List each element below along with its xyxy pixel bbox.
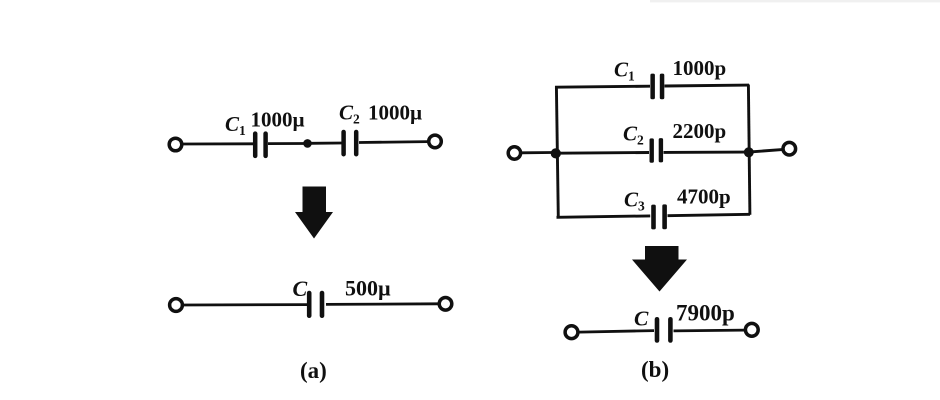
capacitor C2 (b) [650,138,664,163]
capacitor C [309,293,322,316]
junction node right [744,147,754,157]
wire [579,331,654,333]
svg-text:2200p: 2200p [673,119,727,143]
wire middle branch [558,151,649,155]
terminal right (a) bottom [439,298,452,311]
capacitor C1 [255,134,265,156]
wire [359,140,428,144]
capacitor C3 (b) [651,204,667,229]
svg-text:1000µ: 1000µ [368,101,422,125]
wire [326,302,438,305]
wire left rail [556,86,558,217]
terminal right (b) bottom [745,323,758,336]
terminal right (a) top [429,135,442,148]
wire [674,329,745,333]
arrow (a) [295,187,333,239]
wire [268,142,304,145]
wire right rail [748,85,750,215]
terminal left (b) bottom [565,326,578,339]
arrow (b) [632,246,687,292]
svg-text:4700p: 4700p [677,185,731,209]
svg-text:(b): (b) [641,357,669,382]
wire top branch [555,86,650,87]
wire [183,142,254,145]
terminal left (a) bottom [170,299,183,312]
capacitor C2 [344,132,357,154]
wire [184,303,308,306]
svg-text:(a): (a) [300,358,327,383]
svg-text:1000µ: 1000µ [251,108,305,132]
svg-text:C: C [634,307,649,331]
junction node [303,139,312,148]
capacitor C (b) [657,319,670,340]
terminal right (b) [783,142,796,155]
wire [311,142,342,145]
capacitor C1 (b) [650,74,664,100]
junction node left [551,148,561,158]
svg-text:7900p: 7900p [676,301,735,326]
wire [752,150,782,152]
wire bottom branch [557,216,651,217]
svg-text:C: C [293,276,308,301]
terminal left (a) top [169,138,182,151]
svg-text:500µ: 500µ [345,276,391,301]
svg-text:1000p: 1000p [673,56,727,80]
wire [522,151,553,154]
terminal left (b) [508,147,520,159]
